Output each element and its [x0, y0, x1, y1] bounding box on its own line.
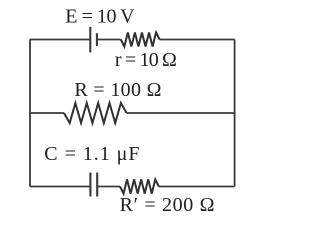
wire middle-right segment: [127, 112, 235, 114]
svg-text:E = 10 V: E = 10 V: [65, 6, 135, 28]
wire capacitor-to-R' segment: [97, 186, 120, 188]
svg-text:C = 1.1 μF: C = 1.1 μF: [44, 143, 139, 165]
wire battery-to-r segment: [97, 39, 121, 41]
wire bottom-right segment: [159, 186, 235, 188]
svg-text:R = 100 Ω: R = 100 Ω: [74, 79, 161, 101]
wire top-right segment: [160, 39, 235, 41]
wire middle-left segment: [30, 112, 64, 114]
wire top-left segment: [30, 39, 90, 41]
capacitor C: [90, 173, 97, 197]
resistor r zigzag: [121, 33, 160, 47]
svg-text:r = 10 Ω: r = 10 Ω: [115, 49, 177, 71]
wire left edge: [29, 40, 31, 187]
wire bottom-left segment: [30, 186, 90, 188]
resistor R zigzag: [64, 103, 127, 123]
wire right edge: [234, 40, 236, 187]
battery E (cell): [90, 27, 97, 53]
resistor R' zigzag: [120, 179, 159, 193]
svg-text:R′ = 200 Ω: R′ = 200 Ω: [120, 194, 215, 216]
